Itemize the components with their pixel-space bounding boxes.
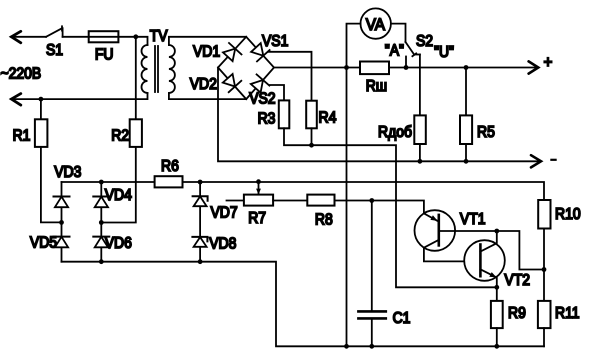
resistor R2: [130, 37, 142, 147]
svg-text:R1: R1: [13, 128, 31, 145]
node R5 minus: [464, 159, 469, 164]
fuse FU: [89, 31, 119, 42]
node R7 wiper: [256, 179, 261, 184]
svg-text:S2: S2: [416, 33, 433, 50]
svg-text:VS1: VS1: [262, 33, 288, 50]
node R5 plus: [464, 65, 469, 70]
svg-text:VD8: VD8: [209, 236, 236, 253]
svg-text:VD5: VD5: [30, 235, 57, 252]
transistor VT2: [464, 231, 505, 287]
node chain top VD7: [198, 180, 203, 185]
terminal arrow input top: [11, 31, 20, 43]
diode VD3: [54, 197, 70, 208]
resistor R10: [538, 200, 550, 270]
svg-text:VT1: VT1: [460, 211, 486, 228]
wire diode chain VD3 VD5: [61, 182, 63, 262]
wire top input to S1: [11, 36, 46, 38]
svg-text:R11: R11: [555, 305, 580, 322]
resistor R11: [538, 270, 551, 347]
meter VA: [347, 8, 406, 67]
wire R4 bottom: [311, 128, 313, 145]
svg-text:C1: C1: [393, 310, 411, 327]
node VD3 VD5: [59, 220, 64, 225]
svg-text:VD6: VD6: [105, 235, 132, 252]
wire S1 to TV primary: [63, 37, 148, 45]
resistor Rdob: [414, 115, 426, 144]
node R9 bottom: [494, 344, 499, 349]
wire VS1 gate to R4: [269, 52, 312, 101]
bridge rectifier diamond: [218, 37, 274, 99]
svg-text:R5: R5: [477, 124, 495, 141]
node bottom rail x346: [344, 344, 349, 349]
node plus/VA: [344, 65, 349, 70]
svg-text:R3: R3: [258, 111, 276, 128]
wire diode chain top: [62, 182, 545, 200]
transistor VT1: [415, 210, 545, 269]
wire diode chain VD4 VD6: [100, 182, 102, 262]
svg-text:Rдоб: Rдоб: [378, 124, 412, 141]
svg-text:R7: R7: [248, 210, 266, 227]
resistor R6: [155, 176, 183, 187]
wire plus rail to bottom rail: [346, 68, 348, 347]
wire secondary top to bridge: [169, 37, 246, 45]
zener VD7: [193, 196, 208, 206]
wire DC plus line: [274, 67, 537, 69]
node VD8 bottom: [198, 259, 203, 264]
terminal arrow input bottom: [11, 94, 20, 106]
resistor R8: [273, 195, 424, 214]
wire VS2 gate to R3: [269, 85, 284, 100]
resistor Rsh: [360, 62, 389, 75]
node R10 R11: [542, 267, 547, 272]
terminal arrow minus: [531, 155, 541, 167]
switch S1: [46, 26, 63, 37]
svg-text:TV: TV: [150, 28, 168, 45]
transformer TV core: [155, 46, 158, 92]
node bottom wire / R1: [39, 97, 44, 102]
resistor R5: [460, 68, 472, 162]
node A contact: [404, 65, 409, 70]
svg-text:FU: FU: [95, 47, 114, 64]
switch S2: [406, 42, 420, 68]
zener VD8: [192, 237, 207, 247]
diode VD1: [223, 43, 242, 61]
svg-text:VS2: VS2: [249, 91, 275, 108]
resistor R4: [306, 101, 317, 129]
svg-text:R6: R6: [161, 158, 179, 175]
transformer TV primary winding: [142, 45, 148, 93]
node VD4 VD6: [99, 220, 104, 225]
node VD6 bottom: [99, 259, 104, 264]
terminal arrow plus: [529, 61, 539, 73]
diode VD4: [93, 197, 109, 208]
resistor R9: [491, 287, 503, 346]
svg-text:"А": "А": [385, 43, 404, 60]
svg-text:VD1: VD1: [193, 44, 220, 61]
transformer TV secondary winding: [169, 45, 175, 93]
wire bottom input: [11, 93, 147, 99]
wire secondary bottom to bridge: [169, 93, 246, 99]
wire DC minus line: [218, 68, 540, 162]
wire diode chain VD7 VD8: [199, 182, 201, 262]
node VT2 emitter: [494, 285, 499, 290]
svg-text:VD2: VD2: [190, 76, 217, 93]
svg-text:"U": "U": [434, 44, 454, 61]
svg-text:+: +: [544, 53, 553, 72]
svg-text:VD3: VD3: [54, 164, 81, 181]
wire Rdob bottom: [419, 144, 421, 161]
svg-text:R10: R10: [555, 206, 581, 223]
resistor R1: [35, 99, 48, 147]
wire S2 to Rdob: [419, 55, 421, 116]
capacitor C1: [358, 201, 385, 347]
node R4 bottom: [309, 143, 314, 148]
thyristor VS2: [251, 74, 270, 92]
svg-text:R9: R9: [508, 305, 526, 322]
thyristor VS1: [251, 43, 270, 61]
diode VD2: [223, 74, 242, 92]
diode VD5: [54, 237, 70, 248]
diode VD6: [93, 237, 109, 248]
svg-text:R4: R4: [319, 110, 337, 127]
node top wire / R2: [133, 34, 138, 39]
svg-text:VD4: VD4: [105, 187, 132, 204]
label minus: [551, 159, 555, 161]
potentiometer R7: [227, 182, 274, 206]
wire R2 to VD4/VD6 node: [101, 147, 136, 223]
svg-text:VA: VA: [366, 15, 385, 34]
wire R3 R4 bottoms to VT2 emitter: [284, 128, 497, 287]
wire R1 to VD3/VD5 node: [41, 147, 62, 223]
svg-text:VT2: VT2: [504, 272, 530, 289]
node VT1 base VT2 collector: [494, 229, 499, 234]
svg-text:R2: R2: [111, 128, 129, 145]
svg-text:R8: R8: [315, 212, 333, 229]
node chain top VD4: [99, 180, 104, 185]
svg-text:VD7: VD7: [211, 205, 238, 222]
node bottom rail C1: [369, 344, 374, 349]
node Rdob minus: [418, 159, 423, 164]
wire diode chain bottom to bottom rail: [62, 262, 545, 347]
node C1 top: [369, 198, 374, 203]
svg-text:S1: S1: [46, 42, 63, 59]
resistor R3: [279, 100, 290, 128]
svg-text:~220В: ~220В: [1, 66, 42, 83]
svg-text:Rш: Rш: [366, 78, 387, 95]
